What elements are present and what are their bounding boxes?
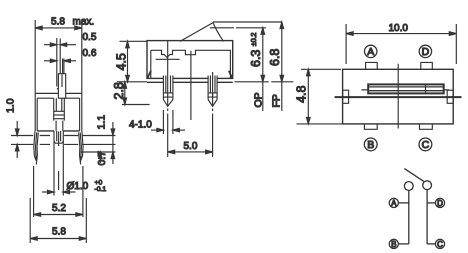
dimension 5.0 (legs) [168, 150, 213, 154]
svg-text:4.8: 4.8 [295, 85, 309, 102]
left stub [343, 90, 349, 103]
dimension 1.1 / 0.7 (right reference) [99, 122, 115, 164]
FP top line [213, 21, 282, 23]
wire D to right [427, 202, 435, 204]
svg-text:1.0: 1.0 [5, 98, 17, 113]
svg-text:5.8: 5.8 [52, 227, 66, 238]
inner cavity outline [151, 50, 231, 78]
svg-text:A: A [391, 199, 397, 208]
inner contact line [156, 58, 180, 60]
svg-text:6.8: 6.8 [268, 49, 282, 66]
svg-text:C: C [422, 139, 430, 151]
stem / leg1 centerline [167, 41, 169, 157]
terminal D label (top view) [419, 45, 431, 57]
leg 1 (side view) [163, 76, 173, 107]
seating line right [235, 81, 294, 83]
svg-text:OP: OP [252, 92, 264, 107]
svg-text:6.3 ±0.2: 6.3 ±0.2 [249, 32, 263, 67]
dimension 4.5 (side view left) [120, 41, 147, 82]
terminal A label (top view) [365, 45, 377, 57]
leg2 centerline [212, 72, 214, 157]
right contact [423, 181, 432, 190]
terminal C [435, 239, 444, 248]
corner chamfers [147, 71, 232, 79]
mid line (top view) [335, 96, 462, 98]
reference plane lines left [11, 136, 50, 145]
svg-text:D: D [422, 46, 430, 58]
center axis (top view) [397, 64, 399, 129]
leg 2 (side view) [208, 76, 217, 107]
terminal A [389, 198, 398, 207]
terminal C label (top view) [419, 138, 432, 151]
svg-text:5.8: 5.8 [51, 16, 65, 27]
dimension 6.3±0.2 OP [261, 28, 265, 111]
dimension 10.0 [346, 24, 456, 64]
dimension 0.6 (stem) [44, 59, 76, 62]
dimension 1.0 (left reference) [15, 121, 19, 158]
svg-text:D: D [437, 199, 443, 208]
OP top line [210, 27, 266, 29]
front view cover plate top [35, 92, 82, 94]
svg-text:5.2: 5.2 [52, 203, 66, 214]
svg-text:FP: FP [271, 94, 283, 107]
svg-text:-0.1: -0.1 [95, 186, 107, 193]
svg-text:0.7: 0.7 [96, 151, 108, 166]
svg-text:10.0: 10.0 [389, 23, 409, 34]
dimension 5.8 (bottom) [30, 198, 86, 243]
seating line left [117, 81, 147, 83]
top view body [343, 69, 454, 124]
reference plane lines right [64, 136, 115, 153]
front view body outline [37, 98, 79, 131]
svg-text:0.5: 0.5 [83, 32, 97, 43]
terminal D [435, 198, 444, 207]
dimension 5.8 max. (top) [35, 26, 82, 30]
dimension 4.8 (top view) [297, 69, 343, 124]
wire right vertical [426, 190, 428, 244]
dimension 5.2 (bottom) [34, 166, 83, 217]
svg-text:2.8: 2.8 [112, 82, 126, 99]
dimension Ø1.0 pin [42, 190, 76, 193]
dimension 6.8 FP [280, 22, 284, 111]
side view body outline [147, 41, 233, 83]
svg-text:B: B [367, 139, 374, 151]
terminal B label (top view) [364, 138, 377, 151]
svg-text:5.0: 5.0 [184, 141, 198, 152]
terminal B [389, 239, 398, 248]
wire B to left [398, 243, 408, 245]
bottom tabs [364, 124, 377, 129]
left claw leg (front view) [34, 131, 39, 165]
switch lever [404, 169, 423, 182]
wire left vertical [408, 190, 410, 244]
svg-text:B: B [391, 240, 396, 249]
svg-text:0.6: 0.6 [83, 48, 97, 59]
svg-text:C: C [437, 240, 443, 249]
dimension 2.8 (side view left) [122, 82, 150, 105]
svg-text:4.5: 4.5 [115, 53, 129, 70]
left contact [404, 182, 413, 191]
stem shaft lines (front view) [57, 38, 64, 87]
wire A to left [398, 202, 408, 204]
leg 1 centerline overlay [167, 76, 169, 106]
bottom boss (front view) [54, 131, 63, 143]
center pin Ø1.0 (front view) [54, 131, 63, 196]
top tabs [366, 62, 378, 69]
stem travel pointer [180, 23, 224, 42]
front view cover plate sides [35, 20, 82, 131]
svg-text:max.: max. [73, 16, 95, 27]
dimension 0.5 (stem) [44, 43, 76, 46]
right stub [447, 90, 453, 103]
wire C to right [427, 243, 435, 245]
svg-text:Ø1.0: Ø1.0 [67, 181, 89, 192]
body center axis [190, 51, 192, 120]
stem collar (front view) [57, 74, 66, 99]
dimension 4-1.0 (legs) [151, 110, 185, 134]
svg-text:A: A [367, 46, 374, 58]
right claw leg (front view) [79, 131, 84, 165]
svg-text:1.1: 1.1 [96, 115, 108, 130]
leg 2 centerline overlay [212, 76, 214, 106]
svg-text:4-1.0: 4-1.0 [129, 119, 152, 130]
plunger inside body (front view) [54, 98, 65, 131]
actuator bar [361, 84, 449, 93]
